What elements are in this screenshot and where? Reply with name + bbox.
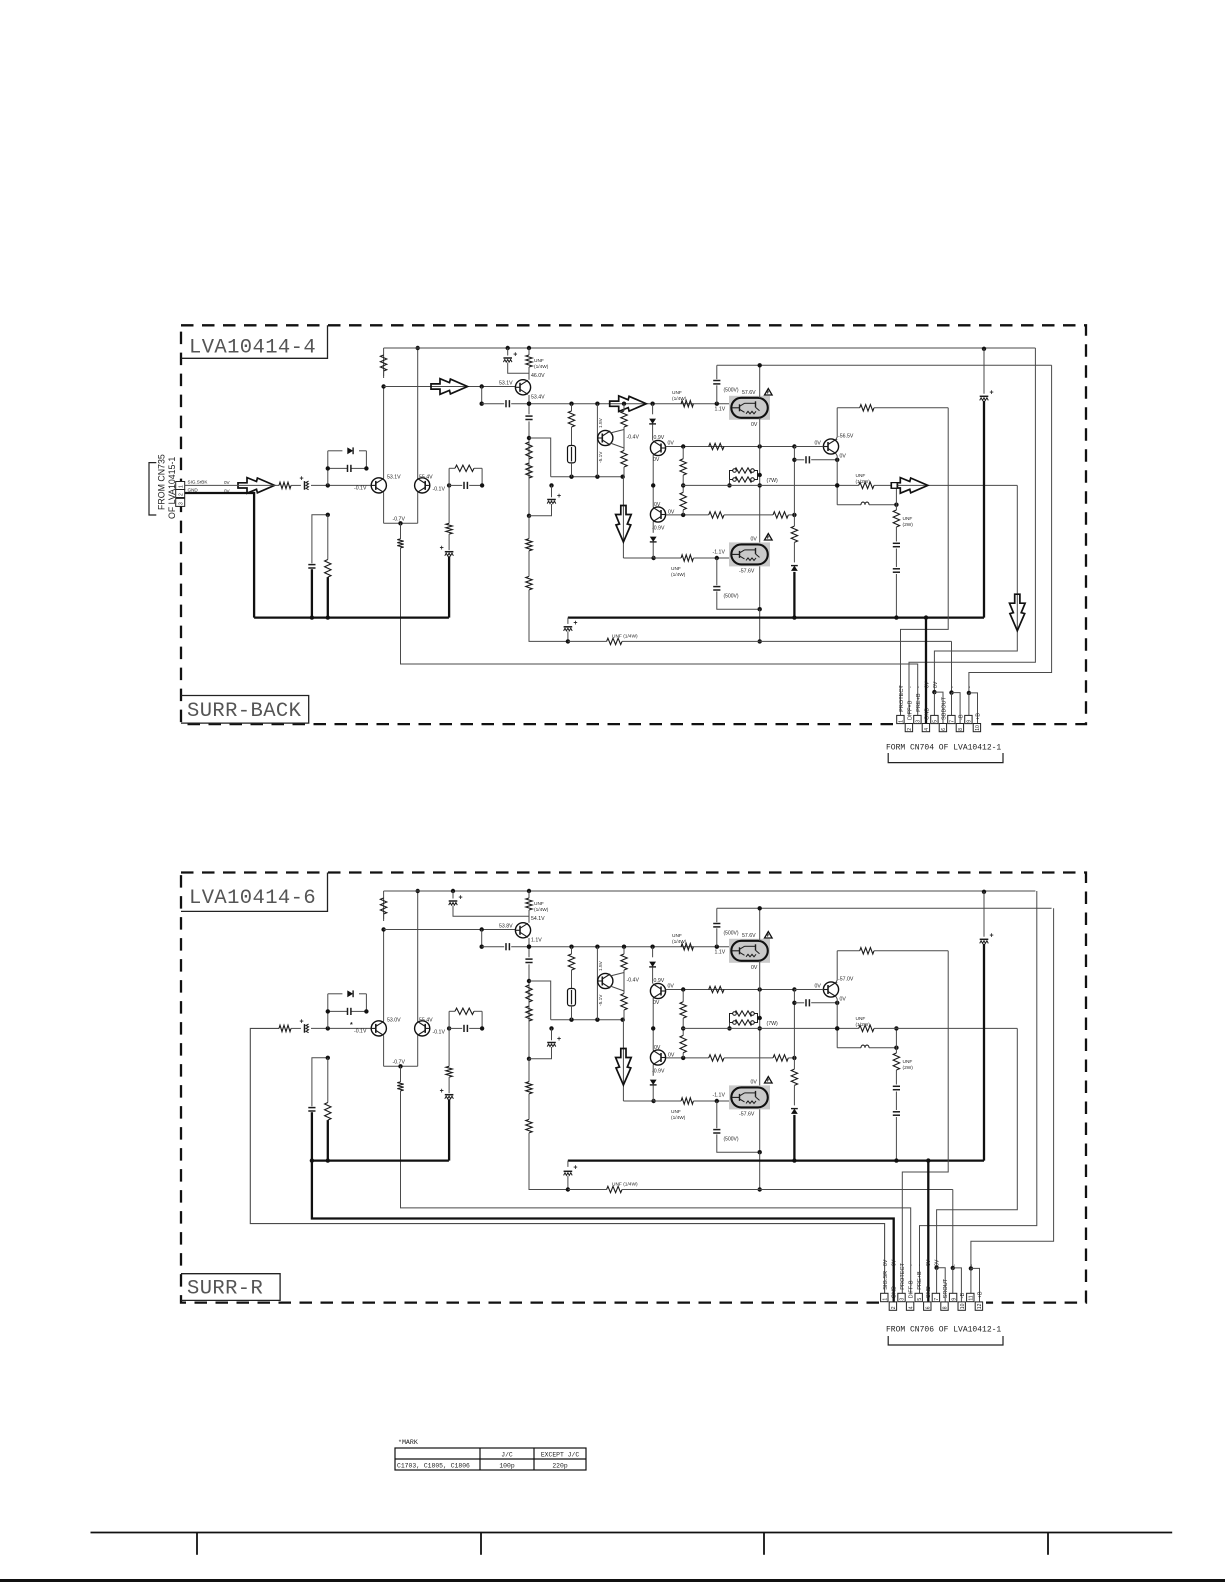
wire +B pin pair — [968, 693, 970, 716]
power transistor lower -57.6V — [729, 1085, 770, 1109]
svg-text:DIFF+B: DIFF+B — [907, 700, 913, 720]
node tail — [398, 1064, 402, 1068]
svg-text:7: 7 — [934, 1298, 940, 1301]
diode thermal D3 — [652, 1065, 654, 1076]
svg-text:SIG.SR: SIG.SR — [883, 1271, 889, 1290]
node 515.8 — [527, 1057, 531, 1061]
svg-text:0V: 0V — [751, 422, 758, 428]
transistor Q6 driver lower — [650, 507, 665, 522]
svg-text:9: 9 — [951, 1298, 957, 1301]
node 438 — [527, 979, 531, 983]
svg-text:(1/4W): (1/4W) — [534, 364, 549, 370]
diode thermal D3 — [652, 522, 654, 533]
svg-text:+: + — [990, 933, 994, 940]
dashed block outline LVA10414-6 — [181, 873, 1086, 1303]
svg-text:UNF: UNF — [903, 516, 913, 522]
svg-text:5: 5 — [933, 720, 939, 723]
resistor chain x529 b — [526, 1006, 532, 1021]
rail2 second top — [717, 907, 1052, 909]
capacitor rail decoupling (electrolytic) — [451, 889, 455, 893]
svg-text:-5.1V: -5.1V — [598, 994, 604, 1006]
resistor chain x529 d — [528, 1094, 530, 1120]
wire bypass to bus — [311, 569, 313, 617]
nodes on 403.7 — [527, 945, 531, 949]
resistor drive lower 558 — [654, 557, 682, 559]
svg-text:-0.1V: -0.1V — [433, 1030, 446, 1036]
wire x597 — [596, 947, 598, 1020]
transistor Q3 VAS — [515, 380, 530, 395]
wire Q4 leads to x624 — [610, 973, 624, 977]
connector CN704 pins 1-10 — [897, 715, 904, 723]
wire RC left leg — [448, 1011, 450, 1028]
node 438 — [527, 436, 531, 440]
wire clamp right leg — [365, 994, 367, 1012]
capacitor Q7 base-emitter — [794, 459, 804, 461]
resistor ladder x683 lower — [680, 492, 686, 509]
node 515.8 — [527, 514, 531, 518]
resistor on 446.5 — [709, 986, 724, 992]
wire GND from pin2 — [185, 493, 254, 618]
label box SURR — [181, 1274, 280, 1301]
svg-text:+: + — [557, 493, 561, 500]
wire -B pin pair — [952, 1190, 954, 1268]
page bottom border — [0, 1579, 1225, 1582]
capacitor lag y403.7 — [482, 403, 505, 405]
line 446.5 to output column — [683, 989, 823, 991]
capacitor (500V) lower — [716, 558, 718, 585]
wire Q7 emitter down — [836, 997, 837, 1048]
wire Q2 collector to rail — [417, 891, 419, 1021]
svg-text:DIFF-B: DIFF-B — [909, 1280, 915, 1298]
wire Q3 emitter chain — [528, 938, 530, 957]
svg-text:-0.9V: -0.9V — [652, 1069, 665, 1075]
resistor x624 lower — [621, 994, 627, 1011]
resistor on 514.9 a — [709, 1055, 724, 1061]
wire output column upper — [759, 908, 761, 941]
svg-text:0V: 0V — [654, 1045, 661, 1051]
svg-text:UNF: UNF — [672, 390, 682, 396]
svg-text:+: + — [440, 545, 444, 552]
line 558 lower drive — [623, 557, 653, 559]
line 476.7 — [551, 1019, 623, 1021]
svg-text:1: 1 — [899, 720, 905, 723]
svg-text:0V: 0V — [840, 997, 847, 1003]
svg-text:3: 3 — [916, 720, 922, 723]
wire Q5-Q6 column — [652, 998, 654, 1051]
svg-text:2: 2 — [907, 728, 913, 731]
node VAS feedback tap — [480, 927, 484, 931]
svg-text:(2W): (2W) — [903, 1065, 914, 1071]
wire input node to Q1 base — [328, 484, 371, 486]
warning mark upper — [765, 389, 773, 396]
svg-text:EXCEPT J/C: EXCEPT J/C — [541, 1452, 580, 1459]
connector CN735 label FROM CN735 OF LVA10415-1 — [149, 463, 156, 515]
capacitor rail decoupling (electrolytic) — [506, 346, 510, 350]
node ladder on main — [681, 1026, 685, 1030]
resistor chain x529 d — [528, 551, 530, 577]
svg-text:(500V): (500V) — [724, 1137, 739, 1143]
resistor ladder x683 upper — [682, 447, 684, 459]
resistor drive upper 403.7 — [681, 401, 693, 407]
main output line right — [682, 484, 859, 486]
wire Q5 base row 446.5 — [666, 989, 684, 991]
svg-text:0V: 0V — [840, 454, 847, 460]
capacitor -B coupling on bus end — [567, 1161, 569, 1167]
svg-text:0.9V: 0.9V — [654, 978, 665, 984]
title box LVA10414-6 — [181, 873, 328, 912]
svg-text:(500V): (500V) — [724, 931, 739, 937]
line -B with resistor UNF 1/4W — [568, 1189, 607, 1191]
wire bypass to bus — [311, 1112, 313, 1160]
signal flow arrow down mid — [616, 1049, 632, 1086]
resistor on 407.8 — [860, 948, 874, 954]
resistor Q3 collector — [527, 346, 531, 350]
svg-text:+: + — [300, 475, 304, 482]
svg-text:46.0V: 46.0V — [531, 373, 545, 379]
svg-text:0V: 0V — [815, 440, 822, 446]
svg-text:-: - — [967, 686, 973, 688]
resistor input bias to bus — [327, 515, 329, 560]
wire clamp left leg — [327, 451, 329, 486]
resistor x571 upper — [568, 411, 574, 427]
svg-text:-B: -B — [958, 714, 964, 720]
svg-text:10: 10 — [975, 725, 981, 731]
wire input node to Q1 base — [328, 1027, 371, 1029]
nodes on 403.7 — [527, 402, 531, 406]
svg-text:-: - — [907, 686, 913, 688]
svg-text:55.4V: 55.4V — [419, 474, 433, 480]
resistor Q3 collector — [527, 889, 531, 893]
svg-text:-: - — [917, 1264, 923, 1266]
svg-text:-57.6V: -57.6V — [739, 1112, 755, 1118]
capacitor +B reservoir (electrolytic) — [982, 890, 986, 894]
wire Q7 collector — [836, 982, 837, 984]
svg-text:1.5V: 1.5V — [598, 417, 604, 428]
rail2 second top — [717, 364, 1052, 366]
line 558 lower drive — [623, 1100, 653, 1102]
wire -B pin pair — [951, 641, 953, 692]
svg-text:0V: 0V — [751, 537, 758, 543]
resistor x624 upper — [623, 404, 625, 411]
wire bias ladder top — [529, 438, 551, 477]
capacitor miller from emitter (electrolytic) — [549, 483, 553, 487]
node Q2 base feedback — [447, 483, 451, 487]
svg-text:-5.1V: -5.1V — [598, 451, 604, 463]
svg-text:11: 11 — [969, 1295, 975, 1300]
wire x529 to -B line — [529, 1133, 568, 1190]
svg-text:UNF: UNF — [672, 933, 682, 939]
node VAS feedback tap — [480, 384, 484, 388]
resistor chain x529 b — [526, 463, 532, 478]
svg-text:-57.0V: -57.0V — [838, 976, 854, 982]
svg-text:1.1V: 1.1V — [715, 407, 726, 413]
resistor input series — [279, 482, 291, 488]
svg-text:(1/2W): (1/2W) — [856, 1022, 871, 1028]
svg-text:FORM CN704 OF LVA10412-1: FORM CN704 OF LVA10412-1 — [886, 744, 1001, 753]
diode rail clamp D4 — [793, 447, 795, 515]
resistor feedback parallel — [449, 467, 455, 469]
wire tail to DIFF-B feeder — [401, 1091, 911, 1294]
capacitor (500V) upper — [716, 908, 718, 922]
resistor output UNF 1/2W — [859, 1025, 874, 1031]
connector CN735 pin 2 — [176, 490, 185, 498]
svg-text:UNF: UNF — [903, 1059, 913, 1065]
node Q3 emitter on line — [527, 945, 531, 949]
diode clamp input pair — [328, 993, 343, 995]
svg-text:0V: 0V — [883, 1259, 889, 1266]
title box LVA10414-4 — [181, 325, 328, 358]
rail1 corner to DIFF feeder — [920, 891, 1037, 1293]
svg-text:+: + — [300, 1018, 304, 1025]
svg-text:0V: 0V — [224, 480, 231, 485]
wire output column to -B line — [759, 609, 761, 641]
line 476.7 — [551, 476, 623, 478]
svg-text:(1/4W): (1/4W) — [672, 396, 687, 402]
line 407.8 to protect feeder — [837, 407, 860, 409]
wire Q7 base — [794, 989, 823, 991]
svg-text:-57.6V: -57.6V — [739, 569, 755, 575]
rail1 +B top — [384, 890, 1036, 892]
resistor drive upper 403.7 — [681, 944, 693, 950]
capacitor miller from emitter (electrolytic) — [549, 1026, 553, 1030]
resistor on 407.8 — [860, 405, 874, 411]
wire emitter bar Q1 Q2 — [383, 1036, 385, 1067]
capacitor (500V) lower — [716, 1101, 718, 1128]
resistor drive lower 558 — [654, 1100, 682, 1102]
node ladder on main — [681, 483, 685, 487]
svg-text:1: 1 — [883, 1298, 889, 1301]
line -B with resistor UNF 1/4W — [568, 640, 607, 642]
svg-text:-0.1V: -0.1V — [354, 1029, 367, 1035]
node Q3 emitter on line — [527, 402, 531, 406]
wire Q3 emitter chain — [528, 395, 530, 414]
resistor chain x529 a — [526, 442, 532, 459]
diode thermal D2 — [652, 947, 654, 958]
svg-text:1.1V: 1.1V — [531, 938, 542, 944]
wire clamp left leg — [327, 994, 329, 1029]
svg-text:0V: 0V — [815, 983, 822, 989]
label box SURR — [181, 696, 309, 724]
resistor ladder x683 upper — [682, 990, 684, 1002]
signal flow arrow output down — [1010, 594, 1026, 631]
svg-text:+: + — [557, 1036, 561, 1043]
svg-text:LVA10414-6: LVA10414-6 — [189, 887, 316, 910]
svg-text:100p: 100p — [499, 1463, 515, 1470]
resistor feedback parallel — [449, 1010, 455, 1012]
svg-text:57.6V: 57.6V — [742, 933, 756, 939]
svg-text:-1.1V: -1.1V — [713, 1093, 726, 1099]
diode thermal D2 — [652, 404, 654, 415]
transistor Q6 driver lower — [650, 1050, 665, 1065]
svg-text:C1703, C1805, C1806: C1703, C1805, C1806 — [397, 1463, 470, 1470]
svg-text:0V: 0V — [933, 681, 939, 688]
wire shunt to ground bus — [448, 1099, 450, 1160]
capacitor zobel b — [893, 568, 900, 570]
ground bus segment right (thick) — [568, 1159, 984, 1161]
rail2 corner to +B feeder — [969, 365, 1052, 693]
svg-text:GND: GND — [924, 708, 930, 720]
svg-text:6: 6 — [941, 728, 947, 731]
svg-text:-0.7V: -0.7V — [393, 516, 406, 522]
capacitor Q3 emitter — [525, 415, 532, 417]
emitter resistor pair (7W) — [735, 468, 753, 473]
wire GND bus drop to pin — [926, 1158, 930, 1162]
svg-text:7: 7 — [950, 720, 956, 723]
svg-text:UNF (1/4W): UNF (1/4W) — [612, 1182, 638, 1188]
svg-text:-: - — [916, 686, 922, 688]
capacitor feedback shunt (electrolytic) — [445, 1094, 454, 1096]
transistor Q1 input -0.1V — [371, 1021, 386, 1036]
capacitor zobel a — [893, 542, 900, 544]
capacitor lag y403.7 — [482, 946, 505, 948]
svg-text:SROUT: SROUT — [943, 1278, 949, 1298]
svg-text:0V: 0V — [934, 1259, 940, 1266]
capacitor parallel clamp — [328, 467, 348, 469]
wire emitter bar Q1 Q2 — [383, 493, 385, 524]
svg-text:0V: 0V — [668, 441, 675, 447]
svg-text:3: 3 — [179, 502, 185, 505]
wire RC right leg — [481, 1011, 483, 1028]
svg-text:1: 1 — [179, 485, 185, 488]
svg-text:10: 10 — [960, 1303, 966, 1309]
transistor Q7 protect -56.5V — [823, 982, 838, 997]
svg-text:+B: +B — [977, 1291, 983, 1298]
svg-text:53.4V: 53.4V — [531, 395, 545, 401]
node output column bottom — [758, 607, 762, 611]
wire protect feeder — [902, 951, 948, 1294]
signal flow arrow output — [891, 478, 928, 494]
svg-text:(7W): (7W) — [767, 1021, 779, 1027]
svg-text:0V: 0V — [751, 1080, 758, 1086]
zobel resistor UNF 2W — [895, 485, 897, 510]
wire RC right leg — [481, 468, 483, 485]
wire +B pin pair — [970, 1268, 972, 1293]
svg-text:UNF (1/4W): UNF (1/4W) — [612, 633, 638, 639]
resistor chain x529 a — [526, 985, 532, 1002]
svg-text:-: - — [952, 1264, 958, 1266]
signal flow arrow down mid — [616, 506, 632, 543]
svg-text:UNF: UNF — [671, 566, 681, 572]
svg-text:57.6V: 57.6V — [742, 390, 756, 396]
wire Q7 emitter down — [836, 454, 837, 505]
capacitor input HF bypass — [312, 1058, 328, 1107]
capacitor Q7 base-emitter — [794, 1002, 804, 1004]
wire output to OUT pins — [937, 1028, 1018, 1267]
connector CN706 pins 1-12 — [881, 1293, 888, 1301]
svg-text:(500V): (500V) — [724, 388, 739, 394]
transistor Q4 bias -1.5V — [598, 430, 613, 445]
svg-text:-: - — [899, 686, 905, 688]
svg-text:2: 2 — [179, 493, 185, 496]
coil output ferrite — [837, 1047, 861, 1049]
svg-text:-: - — [900, 1264, 906, 1266]
svg-text:+: + — [573, 620, 577, 627]
node input — [326, 1026, 330, 1030]
resistor x624 lower — [621, 451, 627, 468]
wire bias ladder top — [529, 981, 551, 1020]
svg-text:+: + — [459, 894, 463, 901]
resistor x624 upper — [623, 947, 625, 954]
wire x529 to -B line — [529, 590, 568, 642]
svg-text:0V: 0V — [926, 1259, 932, 1266]
wire VAS tap down — [481, 387, 483, 404]
rail2 corner to +B feeder — [971, 908, 1054, 1268]
svg-text:(1/2W): (1/2W) — [856, 479, 871, 485]
svg-text:53.0V: 53.0V — [387, 1017, 401, 1023]
node Q1 collector / VAS drive — [381, 384, 385, 388]
svg-text:8: 8 — [958, 728, 964, 731]
line 446.5 to output column — [683, 446, 823, 448]
wire Q7 base — [794, 446, 823, 448]
capacitor zobel a — [893, 1085, 900, 1087]
node column on main line — [651, 483, 655, 487]
resistor feedback shunt — [448, 485, 450, 523]
svg-text:55.4V: 55.4V — [419, 1017, 433, 1023]
wire clamp right leg — [365, 451, 367, 469]
wire Q5-Q6 column — [652, 455, 654, 508]
transistor Q4 bias -1.5V — [598, 973, 613, 988]
svg-text:1.1V: 1.1V — [715, 950, 726, 956]
svg-text:UNF: UNF — [856, 473, 866, 479]
svg-text:3: 3 — [900, 1298, 906, 1301]
warning mark upper — [765, 932, 773, 939]
svg-text:0V: 0V — [668, 984, 675, 990]
resistor on 446.5 — [709, 443, 724, 449]
svg-text:-0.4V: -0.4V — [627, 978, 640, 984]
node column on main line — [651, 1026, 655, 1030]
svg-text:UNF: UNF — [671, 1109, 681, 1115]
resistor input series — [279, 1025, 291, 1031]
svg-text:9: 9 — [967, 720, 973, 723]
svg-text:LVA10414-4: LVA10414-4 — [189, 337, 316, 360]
svg-text:+: + — [513, 351, 517, 358]
fusible resistor box — [568, 446, 576, 463]
wire GND bus drop to pin — [924, 615, 928, 619]
svg-text:OF LVA10415-1: OF LVA10415-1 — [167, 457, 177, 519]
svg-text:8: 8 — [943, 1306, 949, 1309]
node Q2 collector on rail — [416, 346, 420, 350]
svg-text:-: - — [950, 686, 956, 688]
power transistor lower -57.6V — [729, 542, 770, 566]
svg-text:FROM CN706 OF LVA10412-1: FROM CN706 OF LVA10412-1 — [886, 1326, 1001, 1335]
wire mid drive down — [622, 1020, 624, 1101]
svg-text:(1/4W): (1/4W) — [534, 907, 549, 913]
resistor tail current — [400, 523, 402, 539]
svg-text:0.9V: 0.9V — [654, 435, 665, 441]
resistor ladder x683 lower — [680, 1035, 686, 1052]
svg-text:+B: +B — [975, 713, 981, 720]
svg-text:GND: GND — [926, 1286, 932, 1298]
svg-text:54.1V: 54.1V — [531, 916, 545, 922]
footer rule with ticks — [91, 1532, 1173, 1534]
svg-text:53.1V: 53.1V — [387, 474, 401, 480]
svg-text:53.8V: 53.8V — [499, 923, 513, 929]
svg-text:PRE+B: PRE+B — [916, 693, 922, 712]
svg-text:0V: 0V — [653, 457, 660, 463]
svg-text:-: - — [909, 1264, 915, 1266]
svg-text:J/C: J/C — [501, 1452, 513, 1459]
wire RC left leg — [448, 468, 450, 485]
svg-text:UNF: UNF — [534, 901, 544, 907]
svg-text:+: + — [990, 390, 994, 397]
power transistor upper 57.6V — [729, 396, 770, 420]
capacitor -B coupling on bus end — [567, 618, 569, 624]
svg-text:SIG.SrBK: SIG.SrBK — [188, 480, 209, 485]
svg-text:0V: 0V — [751, 965, 758, 971]
connector CN735 pin 3 — [176, 498, 185, 506]
resistor x571 upper — [568, 954, 574, 970]
svg-text:0V: 0V — [924, 681, 930, 688]
